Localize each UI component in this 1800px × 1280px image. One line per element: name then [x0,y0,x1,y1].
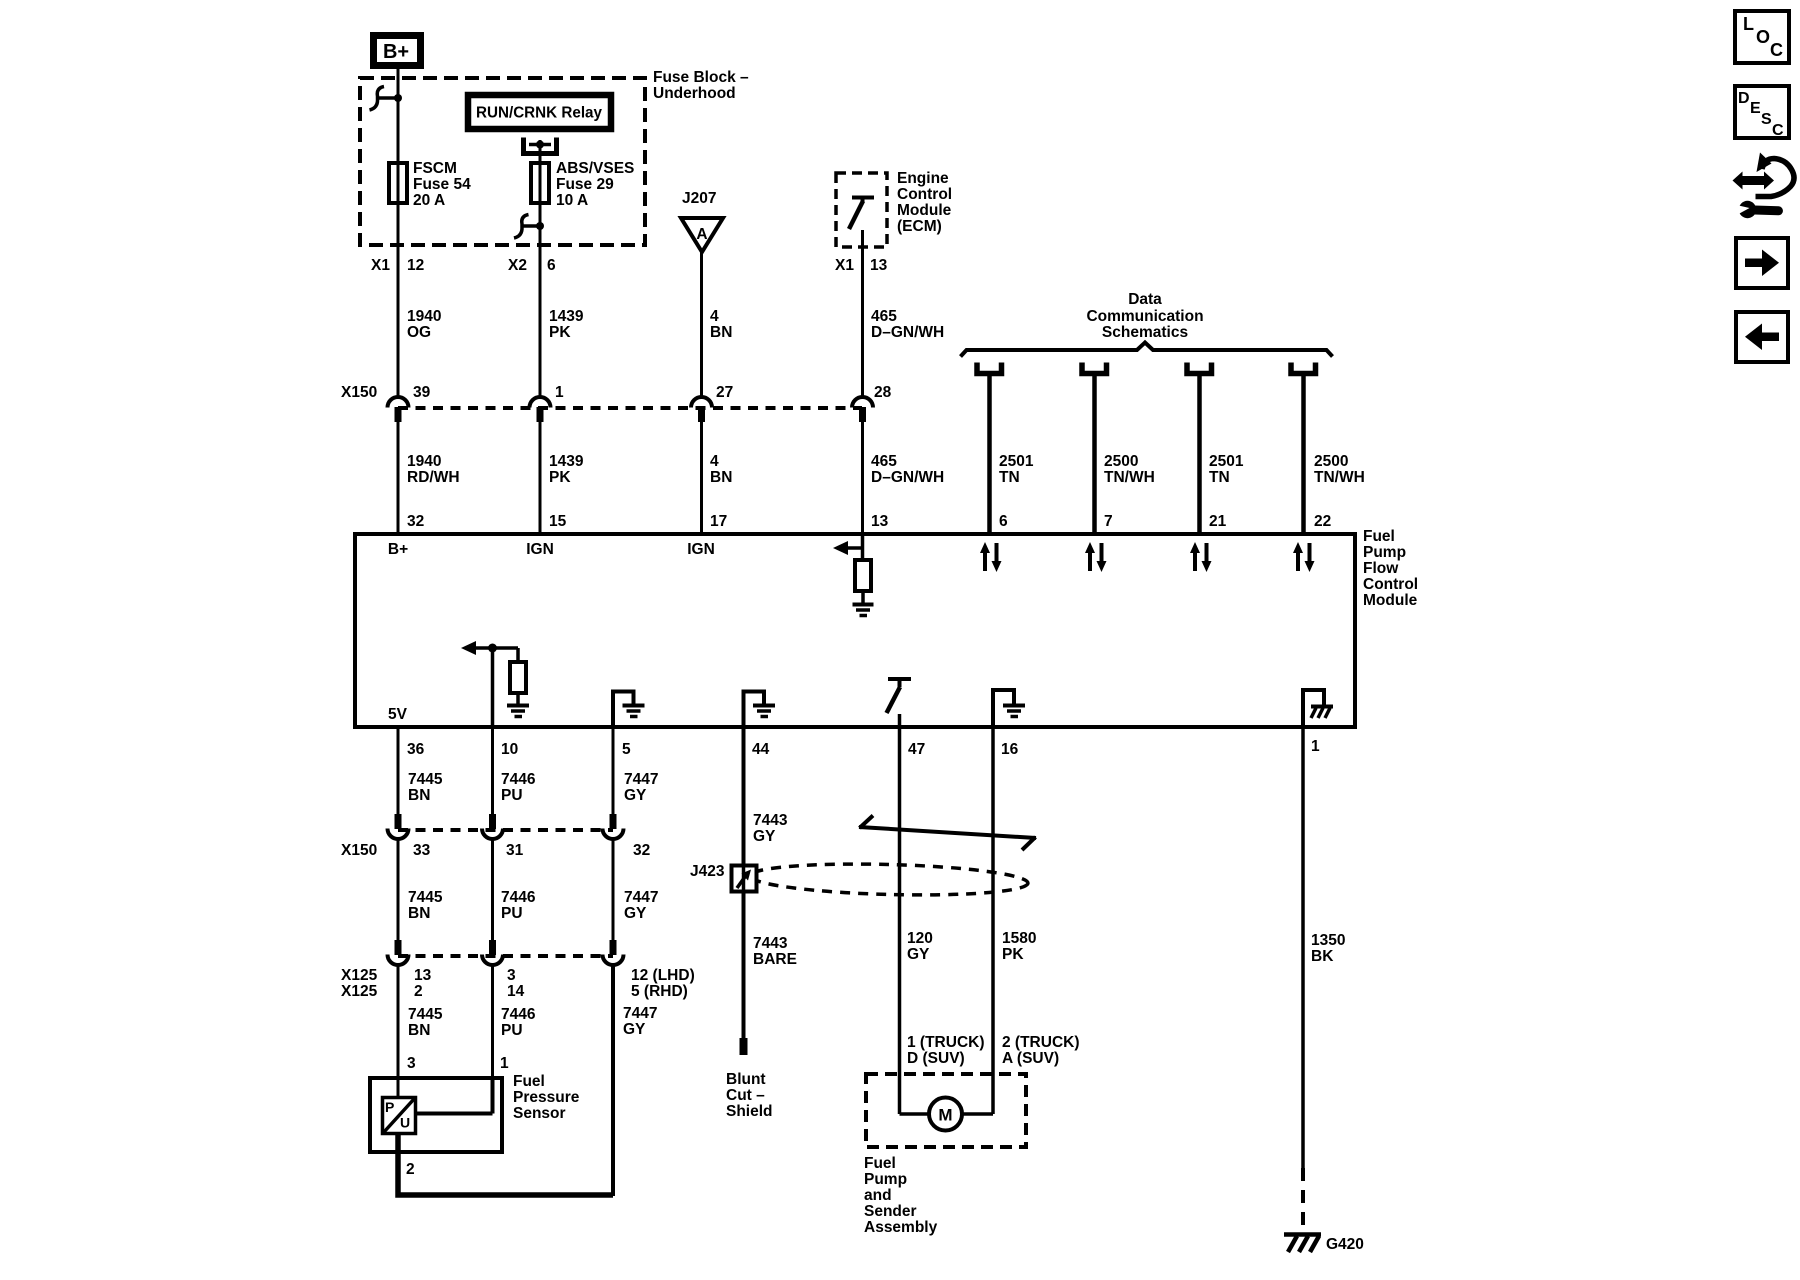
wire pin 5 to X150 pin 32 [612,729,615,816]
svg-text:GY: GY [624,787,647,804]
svg-text:Fuel: Fuel [1363,528,1395,545]
svg-text:D (SUV): D (SUV) [907,1050,965,1067]
wire label 2500 TN/WH [1104,453,1155,486]
svg-text:21: 21 [1209,513,1227,530]
svg-text:120: 120 [907,930,933,947]
wire label 7443 GY [753,812,788,845]
svg-text:13: 13 [414,967,432,984]
svg-text:J207: J207 [682,190,716,207]
wire label 1940 OG [407,308,441,341]
svg-text:27: 27 [716,384,733,401]
internal input arrow and pull-up resistor on pin 13 [833,536,863,560]
svg-text:OG: OG [407,324,431,341]
svg-text:RD/WH: RD/WH [407,469,460,486]
connector X150 row dashed tie line [398,406,862,410]
svg-text:L: L [1743,14,1754,34]
connector X1 pin 13 label (ECM) [835,257,888,274]
svg-text:7445: 7445 [408,1006,443,1023]
data connector bracket pin 22 [1291,363,1316,374]
resistor R-int1 [855,560,871,591]
connector X1 pin 12 label [371,257,424,274]
svg-text:D–GN/WH: D–GN/WH [871,469,944,486]
svg-text:B+: B+ [388,541,408,558]
svg-text:C: C [1770,40,1783,60]
svg-text:PU: PU [501,787,523,804]
svg-text:TN: TN [999,469,1020,486]
wire sensor pin 2 return loop [398,1134,613,1195]
nav icon LOC button [1735,11,1789,63]
wire label 2501 TN second [1209,453,1244,486]
data wire to pin 6 [987,376,992,534]
svg-text:ABS/VSES: ABS/VSES [556,160,634,177]
svg-text:X150: X150 [341,384,377,401]
connector half C2 pin 32 [603,814,651,941]
svg-text:1580: 1580 [1002,930,1036,947]
fuse FSCM Fuse 54 20A [389,160,471,209]
internal ground G-int2 [507,706,529,717]
svg-text:12: 12 [407,257,424,274]
svg-text:7446: 7446 [501,771,536,788]
nav icon DESC button [1735,86,1789,139]
connector half C3 pin 3/14 [482,940,525,1078]
wire label 2500 TN/WH second [1314,453,1365,486]
svg-text:BN: BN [408,905,430,922]
nav icon next arrow button [1736,238,1788,288]
splice J423 [690,862,757,896]
connector half C1 pin 28 [852,384,892,422]
svg-text:X150: X150 [341,842,377,859]
wire sensor pin1 internal link [416,1112,493,1116]
svg-text:U: U [400,1115,410,1131]
svg-text:Sender: Sender [864,1203,917,1220]
svg-text:Fuel: Fuel [513,1073,545,1090]
connector half C3 pin 13/2 [388,940,432,1078]
svg-text:32: 32 [633,842,650,859]
RUN/CRNK Relay box [468,95,611,129]
Fuse Block - Underhood dashed box [360,78,645,245]
svg-text:and: and [864,1187,892,1204]
ECM driver switch symbol [849,198,874,230]
pressure transducer P/U symbol [383,1098,416,1134]
wire W2 relay to X150 pin 1 [539,140,542,397]
wire label 7447 GY row3 [623,1005,657,1038]
svg-text:Schematics: Schematics [1102,324,1188,341]
svg-text:2: 2 [406,1161,415,1178]
fusible element hook symbol on W2 [514,215,544,239]
Fuse Block - Underhood label [653,69,749,102]
svg-text:32: 32 [407,513,424,530]
svg-text:BARE: BARE [753,951,797,968]
svg-text:GY: GY [623,1021,646,1038]
svg-text:O: O [1756,27,1770,47]
svg-text:39: 39 [413,384,431,401]
svg-text:1940: 1940 [407,308,441,325]
wire resistor to internal ground [861,591,865,604]
curly brace over data wires [961,343,1333,357]
svg-text:Data: Data [1128,291,1162,308]
svg-text:GY: GY [907,946,930,963]
svg-text:1: 1 [1311,738,1320,755]
svg-text:2501: 2501 [999,453,1034,470]
svg-text:Blunt: Blunt [726,1071,766,1088]
wire label 1580 PK [1002,930,1036,963]
svg-text:Control: Control [897,186,952,203]
blunt cut end [740,1038,748,1055]
svg-text:Pump: Pump [864,1171,907,1188]
ground G420 [1284,1235,1364,1254]
fusible element hook symbol on W1 [370,87,403,111]
svg-text:22: 22 [1314,513,1331,530]
wire label 7446 PU row2 [501,889,536,922]
connector X125 label [341,967,378,1000]
svg-text:1350: 1350 [1311,932,1345,949]
svg-text:44: 44 [752,741,770,758]
shield dashed ellipse [750,861,1029,898]
ECM label [897,170,952,235]
resistor R-int2 [510,662,526,693]
svg-text:B+: B+ [383,41,409,63]
svg-text:31: 31 [506,842,524,859]
Blunt Cut Shield label [726,1071,773,1120]
pump pin labels 2 TRUCK A SUV [1002,1034,1080,1067]
svg-text:7447: 7447 [624,889,658,906]
svg-text:1439: 1439 [549,453,584,470]
Fuel Pump and Sender Assembly dashed box [866,1074,1026,1147]
wire W4 ECM to X150 pin 28 [861,230,864,397]
svg-text:GY: GY [753,828,776,845]
svg-text:PU: PU [501,905,523,922]
svg-text:7446: 7446 [501,1006,536,1023]
serial data arrows pin 7 [1085,542,1107,572]
svg-text:10 A: 10 A [556,192,588,209]
svg-text:A: A [696,226,707,243]
pump pin labels 1 TRUCK D SUV [907,1034,985,1067]
wire W4 lower to module pin 13 [861,422,864,534]
svg-text:PK: PK [549,469,571,486]
svg-text:1: 1 [500,1055,509,1072]
svg-text:2501: 2501 [1209,453,1244,470]
svg-text:465: 465 [871,453,897,470]
wire label 7447 GY row2 [624,889,658,922]
internal ground branch pin 5 [613,692,645,728]
wire W2 lower to module pin 15 [539,422,542,534]
svg-text:Underhood: Underhood [653,85,736,102]
svg-text:7443: 7443 [753,812,788,829]
wire label 7446 PU row3 [501,1006,536,1039]
Engine Control Module dashed box [836,173,887,247]
wire pin 36 to X150 pin 33 [397,729,400,816]
wire label 7445 BN row2 [408,889,443,922]
wire pin 10 to X150 pin 31 [491,729,494,816]
svg-text:M: M [938,1106,952,1125]
wire label 7445 BN row1 [408,771,443,804]
svg-text:IGN: IGN [687,541,715,558]
svg-text:2: 2 [414,983,423,1000]
svg-text:Fuel: Fuel [864,1155,896,1172]
svg-text:Assembly: Assembly [864,1219,938,1236]
svg-text:Fuse 29: Fuse 29 [556,176,614,193]
svg-text:10: 10 [501,741,518,758]
svg-text:PK: PK [549,324,571,341]
wire label 1439 PK [549,308,584,341]
serial data arrows pin 21 [1190,542,1212,572]
internal 5V output arrow and resistor on pin 10 [461,641,518,727]
internal ground branch pin 44 [744,692,776,728]
svg-text:Module: Module [897,202,952,219]
wire label 2501 TN [999,453,1034,486]
svg-text:6: 6 [999,513,1008,530]
svg-text:2500: 2500 [1314,453,1348,470]
svg-text:Shield: Shield [726,1103,773,1120]
svg-text:Engine: Engine [897,170,949,187]
wire label 465 D-GN/WH [871,308,944,341]
svg-text:Communication: Communication [1086,308,1203,325]
wire pin 16 to fuel pump [991,729,995,1114]
svg-text:2 (TRUCK): 2 (TRUCK) [1002,1034,1080,1051]
svg-text:7: 7 [1104,513,1113,530]
svg-text:13: 13 [871,513,889,530]
wire resistor 2 to ground [516,693,520,705]
svg-text:BN: BN [408,787,430,804]
svg-text:1940: 1940 [407,453,441,470]
svg-text:Module: Module [1363,592,1418,609]
svg-text:33: 33 [413,842,431,859]
svg-text:X2: X2 [508,257,527,274]
wire W3 lower to module pin 17 [700,422,703,534]
svg-text:E: E [1750,100,1761,117]
relay contact cup symbol [524,138,557,154]
wire W3 J207 to X150 pin 27 [700,252,703,397]
svg-text:Control: Control [1363,576,1418,593]
svg-text:5: 5 [622,741,631,758]
splice J207 [681,190,723,252]
connector half C1 pin 39 [388,384,431,422]
svg-text:D: D [1738,90,1750,107]
fuse ABS/VSES Fuse 29 10A [531,160,634,209]
internal ground branch pin 16 [993,690,1025,727]
data connector bracket pin 7 [1082,363,1107,374]
svg-text:J423: J423 [690,863,725,880]
connector X125 dashed tie line [398,954,613,958]
svg-text:7445: 7445 [408,889,443,906]
Fuel Pump Flow Control Module box [355,534,1355,727]
svg-text:15: 15 [549,513,567,530]
wire pin 1 dashed section [1301,1168,1305,1232]
svg-text:BN: BN [408,1022,430,1039]
svg-text:GY: GY [624,905,647,922]
svg-text:BN: BN [710,324,732,341]
data connector bracket pin 21 [1187,363,1212,374]
connector half C3 pin 12/5 [603,940,695,1196]
svg-text:7446: 7446 [501,889,536,906]
svg-text:X1: X1 [371,257,390,274]
internal chassis ground pin 1 [1303,690,1333,727]
svg-text:Fuse 54: Fuse 54 [413,176,471,193]
svg-text:P: P [385,1099,394,1115]
wire pin 47 to fuel pump [898,729,902,1114]
svg-text:TN: TN [1209,469,1230,486]
svg-text:G420: G420 [1326,1236,1364,1253]
Fuel Pump and Sender Assembly label [864,1155,938,1236]
svg-text:14: 14 [507,983,525,1000]
svg-text:7447: 7447 [623,1005,657,1022]
Fuel Pressure Sensor box [370,1073,580,1152]
svg-text:BN: BN [710,469,732,486]
svg-text:20 A: 20 A [413,192,445,209]
connector X150 lower dashed tie line [398,828,613,832]
wire pin 44 to J423 [742,729,746,1046]
data wire to pin 22 [1301,376,1306,534]
wire sensor pin3 inside box [397,1078,400,1097]
wire label 1439 PK lower [549,453,584,486]
svg-text:X1: X1 [835,257,854,274]
wire label 4 BN [710,308,732,341]
svg-text:S: S [1761,111,1772,128]
svg-text:7443: 7443 [753,935,788,952]
svg-text:13: 13 [870,257,888,274]
Data Communication Schematics label [1086,291,1203,341]
wire W1 B+ to X150 pin 39 [397,69,400,397]
svg-text:5 (RHD): 5 (RHD) [631,983,688,1000]
wire pin 1 to G420 solid [1301,729,1305,1168]
svg-text:TN/WH: TN/WH [1314,469,1365,486]
svg-text:6: 6 [547,257,556,274]
svg-text:7445: 7445 [408,771,443,788]
connector half C1 pin 27 [691,384,733,422]
wire label 4 BN lower [710,453,732,486]
svg-text:4: 4 [710,453,719,470]
svg-text:12 (LHD): 12 (LHD) [631,967,695,984]
svg-text:47: 47 [908,741,925,758]
svg-text:Pressure: Pressure [513,1089,580,1106]
connector half C2 pin 33 [388,814,431,941]
svg-text:Cut –: Cut – [726,1087,765,1104]
internal switch on pin 47 [887,679,912,727]
serial data arrows pin 22 [1293,542,1315,572]
svg-text:465: 465 [871,308,897,325]
svg-text:1 (TRUCK): 1 (TRUCK) [907,1034,985,1051]
svg-text:4: 4 [710,308,719,325]
wire label 1350 BK [1311,932,1345,965]
connector half C2 pin 31 [482,814,524,941]
svg-text:2500: 2500 [1104,453,1138,470]
data connector bracket pin 6 [977,363,1002,374]
wire W1 lower to module pin 32 [397,422,400,534]
svg-text:TN/WH: TN/WH [1104,469,1155,486]
svg-text:BK: BK [1311,948,1334,965]
svg-text:28: 28 [874,384,892,401]
svg-text:7447: 7447 [624,771,658,788]
data wire to pin 7 [1092,376,1097,534]
svg-text:Fuse Block –: Fuse Block – [653,69,749,86]
wire label 465 D-GN/WH lower [871,453,944,486]
svg-text:3: 3 [507,967,516,984]
svg-text:A (SUV): A (SUV) [1002,1050,1059,1067]
svg-text:Sensor: Sensor [513,1105,566,1122]
svg-text:X125: X125 [341,983,378,1000]
svg-text:3: 3 [407,1055,416,1072]
nav icon wrench with arrows [1733,153,1795,219]
svg-text:(ECM): (ECM) [897,218,942,235]
wire label 7443 BARE [753,935,797,968]
motor M fuel pump [900,1098,994,1131]
svg-text:PU: PU [501,1022,523,1039]
svg-text:Flow: Flow [1363,560,1399,577]
wire label 7445 BN row3 [408,1006,443,1039]
wire sensor pin1 inside box [491,1078,495,1114]
svg-text:D–GN/WH: D–GN/WH [871,324,944,341]
svg-text:16: 16 [1001,741,1019,758]
nav icon back arrow button [1736,312,1788,362]
svg-text:RUN/CRNK Relay: RUN/CRNK Relay [476,105,602,122]
connector half C1 pin 1 [530,384,565,422]
wire label 7446 PU row1 [501,771,536,804]
internal ground G-int1 [853,605,874,616]
svg-text:IGN: IGN [526,541,554,558]
svg-text:36: 36 [407,741,425,758]
svg-text:C: C [1772,122,1784,139]
Fuel Pump Flow Control Module label [1363,528,1418,609]
twisted pair symbol [859,816,1036,851]
svg-text:X125: X125 [341,967,378,984]
serial data arrows pin 6 [980,542,1002,572]
svg-text:17: 17 [710,513,727,530]
wire label 7447 GY row1 [624,771,658,804]
svg-text:1439: 1439 [549,308,584,325]
data wire to pin 21 [1197,376,1202,534]
svg-text:Pump: Pump [1363,544,1406,561]
svg-text:1: 1 [555,384,564,401]
B+ battery feed box [374,36,421,66]
wire label 120 GY [907,930,933,963]
svg-text:FSCM: FSCM [413,160,457,177]
wire label 1940 RD/WH [407,453,460,486]
svg-text:PK: PK [1002,946,1024,963]
connector X2 pin 6 label [508,257,556,274]
svg-text:5V: 5V [388,706,408,723]
